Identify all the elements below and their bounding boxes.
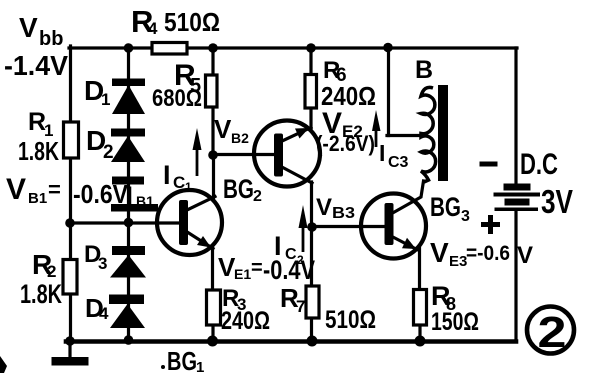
svg-text:B3: B3 xyxy=(332,205,355,222)
svg-text:V: V xyxy=(19,12,38,43)
svg-text:-0.6V: -0.6V xyxy=(73,179,129,209)
svg-text:1.8K: 1.8K xyxy=(20,279,62,309)
svg-text:2: 2 xyxy=(253,188,262,205)
svg-text:E3: E3 xyxy=(449,253,467,270)
svg-text:V: V xyxy=(6,173,26,206)
svg-text:B1: B1 xyxy=(28,190,47,207)
svg-text:=-0.6: =-0.6 xyxy=(466,242,510,265)
svg-text:3: 3 xyxy=(461,208,470,225)
svg-text:C: C xyxy=(285,246,297,263)
svg-text:I: I xyxy=(126,182,133,210)
svg-text:C3: C3 xyxy=(388,154,409,171)
svg-text:BG: BG xyxy=(167,346,197,373)
svg-text:2: 2 xyxy=(103,142,114,163)
svg-text:4: 4 xyxy=(148,19,158,38)
svg-text:150Ω: 150Ω xyxy=(431,308,479,336)
svg-text:1: 1 xyxy=(101,90,110,109)
svg-text:I: I xyxy=(163,160,171,190)
svg-text:680Ω: 680Ω xyxy=(152,85,202,112)
svg-text:3V: 3V xyxy=(541,183,573,220)
svg-text:2: 2 xyxy=(538,308,567,357)
svg-text:V: V xyxy=(316,194,332,221)
svg-text:2: 2 xyxy=(297,253,304,267)
svg-text:B2: B2 xyxy=(231,130,249,146)
svg-text:510Ω: 510Ω xyxy=(164,7,220,37)
svg-text:BG: BG xyxy=(430,192,461,222)
svg-text:V: V xyxy=(430,237,449,268)
svg-text:510Ω: 510Ω xyxy=(325,306,376,334)
svg-text:BG: BG xyxy=(223,174,254,204)
svg-text:V: V xyxy=(214,114,232,144)
svg-text:C: C xyxy=(173,173,185,192)
svg-text:7: 7 xyxy=(296,297,305,316)
svg-text:V: V xyxy=(517,242,533,269)
svg-text:1.8K: 1.8K xyxy=(18,136,59,166)
svg-text:D.C: D.C xyxy=(520,148,558,181)
svg-text:=: = xyxy=(48,177,61,202)
svg-text:4: 4 xyxy=(99,304,109,323)
svg-text:1: 1 xyxy=(196,359,204,373)
svg-text:(-2.6V): (-2.6V) xyxy=(316,131,375,156)
svg-text:I: I xyxy=(274,231,282,261)
svg-text:240Ω: 240Ω xyxy=(221,307,270,335)
svg-text:B: B xyxy=(415,56,433,84)
svg-text:3: 3 xyxy=(98,254,107,273)
svg-text:bb: bb xyxy=(39,28,63,50)
svg-text:B1: B1 xyxy=(136,193,154,209)
svg-text:1: 1 xyxy=(185,180,192,194)
svg-text:E1: E1 xyxy=(234,266,251,282)
svg-text:=: = xyxy=(251,257,263,279)
svg-text:I: I xyxy=(379,140,385,166)
svg-text:-1.4V: -1.4V xyxy=(4,50,68,81)
